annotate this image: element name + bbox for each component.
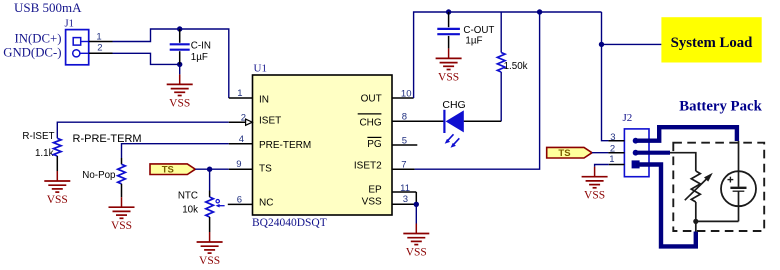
svg-text:C-OUT: C-OUT (463, 25, 494, 36)
thermistor NTC (206, 191, 214, 233)
pin name NC (259, 198, 273, 209)
net flag TS left (150, 164, 195, 176)
ground VSS under U1 pin3 (403, 224, 429, 259)
connector J2 pin 2 (633, 150, 639, 156)
svg-text:1: 1 (609, 154, 614, 165)
wire C-IN to ground (179, 64, 181, 74)
LED CHG cathode bar (443, 110, 445, 133)
label CHG above LED (442, 99, 465, 111)
pin number U1-10 (401, 89, 412, 100)
svg-text:1: 1 (96, 31, 101, 42)
node pack bottom junction (693, 219, 698, 224)
pin number U1-7 (401, 159, 406, 170)
node VSS junction (414, 202, 419, 207)
svg-text:NTC: NTC (178, 191, 198, 202)
ground VSS under R-ISET (44, 171, 70, 206)
svg-text:VSS: VSS (584, 190, 605, 202)
svg-text:No-Pop: No-Pop (82, 170, 116, 181)
wire J2 pin3 stub (608, 140, 624, 142)
op-amp U1 refdes (254, 63, 267, 75)
svg-text:TS: TS (259, 163, 272, 174)
svg-text:J1: J1 (65, 18, 74, 29)
wire U1 pin11 stub (392, 192, 416, 204)
wire U1 pin5 stub (392, 144, 417, 146)
svg-text:VSS: VSS (169, 97, 190, 109)
svg-text:1µF: 1µF (191, 52, 208, 63)
wire ISET2 to OUT rail (415, 12, 540, 169)
connector J1 (66, 30, 89, 65)
svg-text:10k: 10k (182, 205, 198, 216)
resistor 1.50k (497, 53, 505, 73)
text label Battery Pack (679, 99, 762, 115)
svg-text:CHG: CHG (442, 99, 465, 111)
pin name PG with overbar (367, 137, 382, 150)
IC U1 body (253, 75, 393, 215)
pin name CHG with overbar (358, 114, 382, 129)
svg-text:TS: TS (162, 165, 174, 176)
svg-text:PG: PG (367, 139, 382, 150)
connector J2 pin 1 (632, 160, 640, 168)
battery cell BT1 (721, 141, 756, 221)
svg-text:USB 500mA: USB 500mA (14, 0, 82, 15)
wire J1-1 stub (89, 41, 113, 43)
ground VSS under C-OUT (436, 48, 462, 83)
connector J2 body (624, 129, 649, 177)
wire J1-2 stub (89, 52, 113, 54)
pack thermistor arrow (685, 173, 713, 200)
svg-text:9: 9 (236, 159, 241, 170)
svg-text:1.1k: 1.1k (35, 148, 54, 159)
pin name VSS (362, 196, 382, 207)
capacitor C-OUT (437, 12, 460, 48)
capacitor C-IN (170, 29, 190, 64)
svg-text:VSS: VSS (47, 194, 68, 206)
pin number J2-3 (610, 132, 615, 143)
svg-text:VSS: VSS (199, 255, 220, 267)
wire J2 pin1 stub (609, 164, 625, 166)
svg-text:TS: TS (558, 148, 570, 159)
pin number U1-6 (237, 194, 242, 205)
pin name ISET (259, 116, 281, 127)
net flag TS right (547, 147, 592, 159)
pin name OUT (361, 93, 382, 104)
wire U1 pin7 stub (392, 168, 415, 170)
wire U1 pin8 stub to LED (392, 120, 444, 122)
wire R-ISET to U1 pin2 (57, 122, 229, 138)
svg-text:GND(DC-): GND(DC-) (3, 45, 61, 59)
pin number U1-1 (237, 88, 242, 99)
wire J1-2 to C-IN (113, 53, 180, 64)
wire 1.50k to LED (464, 72, 502, 121)
wire TS flag to J2 pin2 (592, 152, 608, 154)
svg-text:OUT: OUT (361, 93, 382, 104)
svg-text:ISET2: ISET2 (354, 161, 382, 172)
svg-text:1µF: 1µF (465, 36, 482, 47)
pin number U1-3 (403, 194, 408, 205)
pin number U1-11 (400, 183, 410, 194)
svg-text:VSS: VSS (111, 220, 132, 232)
wire to System Load (602, 43, 662, 45)
wire U1 pin3 stub (392, 203, 416, 205)
resistor R-ISET value (35, 148, 54, 159)
svg-text:1.50k: 1.50k (504, 61, 528, 72)
wire R-ISET to ground (56, 156, 58, 171)
LED CHG body (446, 110, 464, 132)
wire U1 pin9 stub (229, 168, 253, 170)
wire OUT rail down to J2 (602, 12, 609, 141)
resistor No-Pop label (82, 170, 116, 181)
LED CHG light arrow 1 (445, 134, 454, 144)
thick wire J2 pin1 to battery - (636, 165, 696, 247)
resistor R-ISET label (22, 131, 54, 142)
wire VIN to U1 pin1 stub (229, 97, 253, 99)
svg-text:VSS: VSS (438, 71, 459, 83)
wire U1 pin4 stub (229, 143, 253, 145)
pin name PRE-TERM (259, 140, 311, 151)
connector J2 pin 3 (633, 138, 639, 144)
label R-PRE-TERM (73, 133, 142, 145)
text label IN(DC+) (14, 31, 61, 45)
svg-text:BQ24040DSQT: BQ24040DSQT (252, 217, 327, 229)
node GND junction at C-IN bottom (177, 62, 182, 67)
pin number J2-1 (609, 154, 614, 165)
pin number U1-5 (402, 136, 407, 147)
svg-text:PRE-TERM: PRE-TERM (259, 140, 311, 151)
wire TS flag to U1 pin9 (195, 168, 229, 170)
wire OUT to R 1.50k (500, 12, 502, 53)
block System Load (661, 17, 761, 62)
text label USB 500mA (14, 0, 82, 15)
svg-text:CHG: CHG (359, 118, 381, 129)
wire R-PRE-TERM to U1 pin4 (122, 144, 229, 158)
pin name ISET2 (354, 161, 382, 172)
label 1.50k (504, 61, 528, 72)
svg-text:VSS: VSS (362, 196, 382, 207)
node VIN junction at C-IN top (177, 26, 182, 31)
node OUT junction at C-OUT (446, 9, 451, 14)
connector J1 refdes (65, 18, 74, 29)
svg-text:U1: U1 (254, 63, 267, 75)
pin 2 input arrow (246, 119, 253, 125)
thick wire J2 pin2 to thermistor (636, 151, 670, 155)
pin number J2-2 (610, 143, 615, 154)
svg-text:J2: J2 (623, 112, 633, 124)
pack thermistor RT (691, 171, 700, 202)
text label GND(DC-) (3, 45, 61, 59)
wire pack bottom (696, 221, 739, 231)
wire J2 pin1 to ground (595, 165, 609, 167)
svg-text:R-ISET: R-ISET (22, 131, 54, 142)
battery pack boundary (673, 143, 764, 231)
svg-text:System Load: System Load (671, 35, 754, 51)
pin number U1-9 (236, 159, 241, 170)
LED CHG light arrow 2 (451, 138, 460, 148)
svg-text:3: 3 (403, 194, 408, 205)
wire VSS pin to ground (415, 204, 417, 223)
pin number U1-4 (239, 134, 244, 145)
wire J1-1 to VIN rail (113, 29, 229, 98)
ground VSS under C-IN (167, 74, 193, 109)
thick wire J2 pin3 to battery + (636, 127, 737, 141)
svg-text:IN: IN (259, 94, 269, 105)
wire U1 pin6 stub (228, 203, 253, 205)
svg-text:VSS: VSS (406, 247, 427, 259)
pin number U1-8 (402, 111, 407, 122)
ground VSS under NTC (197, 232, 223, 267)
wire OUT rail (414, 12, 602, 98)
IC U1 part number BQ24040DSQT (252, 217, 327, 229)
ground VSS under J2 pin1 (582, 167, 608, 202)
resistor R-ISET (54, 138, 62, 156)
label NTC value 10k (182, 205, 198, 216)
svg-text:C-IN: C-IN (191, 41, 211, 52)
svg-text:Battery Pack: Battery Pack (679, 99, 762, 115)
svg-text:1: 1 (237, 88, 242, 99)
ground VSS under No-Pop (109, 197, 135, 232)
pin number J1-2 (97, 43, 102, 54)
pin number U1-2 (241, 112, 246, 123)
label C-IN value (191, 41, 211, 63)
node System Load junction (599, 42, 604, 47)
svg-text:2: 2 (97, 43, 102, 54)
svg-text:EP: EP (368, 184, 382, 195)
resistor No-Pop (118, 158, 126, 197)
wire thermistor top (670, 153, 696, 171)
wire J2 pin2 stub (608, 152, 624, 154)
thermistor NTC temp marker (216, 200, 225, 208)
svg-text:NC: NC (259, 198, 273, 209)
pin name IN (259, 94, 269, 105)
node TS junction (207, 167, 212, 172)
pin number J1-1 (96, 31, 101, 42)
pin name EP (368, 184, 382, 195)
svg-text:IN(DC+): IN(DC+) (14, 31, 61, 45)
svg-text:ISET: ISET (259, 116, 281, 127)
label NTC (178, 191, 198, 202)
wire U1 pin2 stub (229, 121, 245, 123)
wire TS to NTC (209, 169, 211, 190)
label C-OUT value (463, 25, 494, 47)
wire thermistor bottom (695, 202, 697, 221)
pin name TS (259, 163, 272, 174)
node OUT junction at ISET2 drop (537, 9, 542, 14)
wire U1 pin10 stub (392, 97, 414, 99)
connector J2 refdes (623, 112, 633, 124)
